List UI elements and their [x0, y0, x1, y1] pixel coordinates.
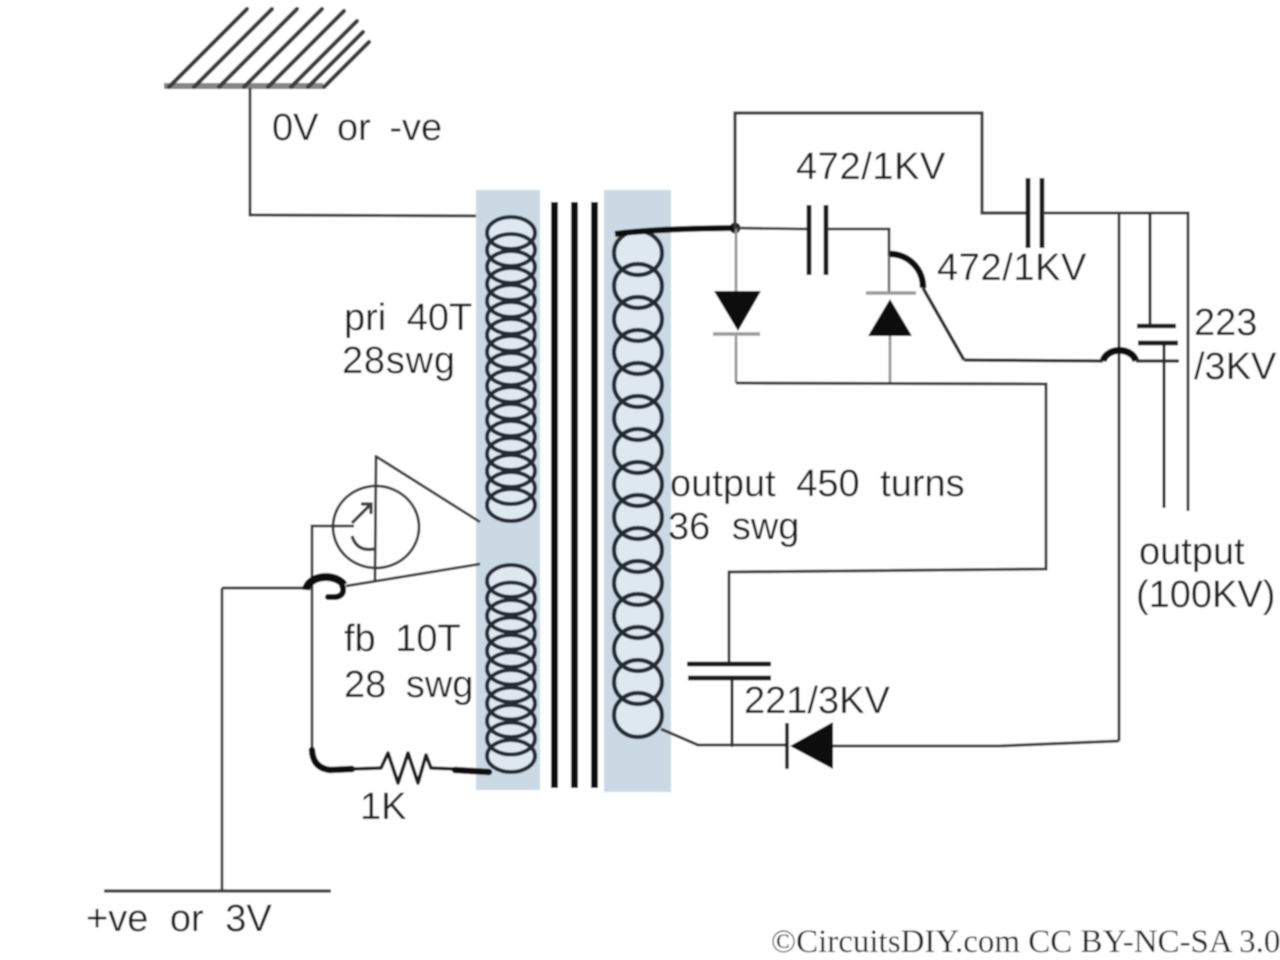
wire secondary top (thick)	[615, 228, 733, 234]
svg-text:36 swg: 36 swg	[668, 506, 799, 548]
wire resistor to fb winding bottom (thick)	[455, 770, 489, 772]
wire to C3 bottom with hop over output wire	[964, 360, 1103, 361]
svg-text:221/3KV: 221/3KV	[744, 680, 890, 722]
capacitor C2 472/1KV	[1028, 178, 1042, 248]
svg-text:223: 223	[1194, 302, 1257, 344]
wire C2 right to corner	[1043, 213, 1188, 511]
wire D3 to output vertical	[833, 741, 1119, 746]
bottom rail of multiplier loop	[729, 383, 1046, 662]
ground	[164, 9, 369, 87]
wire ground to primary top	[250, 88, 493, 216]
junction node at top	[730, 223, 741, 234]
secondary winding output 450 turns	[614, 231, 662, 737]
transistor body circle	[333, 486, 419, 568]
capacitor C4 221/3KV	[687, 664, 771, 747]
wire hop (emitter over base)	[306, 577, 344, 590]
svg-text:output: output	[1139, 531, 1245, 573]
svg-text:0V or -ve: 0V or -ve	[272, 107, 442, 149]
supply vertical wire	[221, 588, 224, 891]
svg-text:/3KV: /3KV	[1194, 346, 1277, 388]
svg-text:28 swg: 28 swg	[344, 664, 473, 706]
wire junction to C1	[735, 228, 807, 229]
svg-text:472/1KV: 472/1KV	[937, 247, 1087, 289]
wire hop (over output vertical)	[1103, 350, 1136, 361]
svg-text:1K: 1K	[360, 786, 406, 828]
capacitor C1 472/1KV	[809, 205, 826, 275]
transformer bobbin right	[604, 190, 671, 792]
transformer bobbin left	[476, 190, 540, 790]
capacitor C3 223/3KV	[1137, 214, 1178, 508]
svg-text:+ve or 3V: +ve or 3V	[86, 898, 272, 940]
svg-text:pri 40T: pri 40T	[344, 297, 472, 339]
diode D2	[866, 256, 916, 383]
wire emitter to fb winding top	[346, 564, 480, 586]
base corner hook (thick)	[312, 750, 352, 770]
svg-text:fb 10T: fb 10T	[344, 618, 461, 660]
wire C1 to node A	[827, 229, 889, 256]
diode D3	[787, 722, 833, 769]
wire diagonal node A to lower wire	[923, 288, 964, 360]
feedback winding fb 10T	[487, 565, 535, 772]
wire hop at node A (thick arc)	[890, 254, 923, 288]
+ve rail	[104, 889, 331, 892]
wire secondary bottom	[661, 729, 786, 745]
resistor R1 1K	[352, 753, 455, 783]
collector diagonal to primary	[377, 457, 480, 522]
emitter arrow squiggle	[352, 504, 371, 523]
primary winding pri 40T	[487, 217, 535, 521]
transistor Q1	[333, 455, 480, 581]
collector stem vertical	[375, 455, 376, 581]
wire output left vertical	[1118, 214, 1121, 741]
svg-text:output 450 turns: output 450 turns	[670, 463, 965, 505]
svg-text:472/1KV: 472/1KV	[796, 146, 946, 188]
transformer core	[551, 202, 598, 788]
emitter wire with hop over base wire	[222, 587, 304, 590]
svg-text:28swg: 28swg	[342, 340, 456, 382]
base wire into transistor	[312, 526, 354, 754]
top loop wire	[735, 113, 1027, 228]
svg-text:©CircuitsDIY.com CC BY-NC-SA 3: ©CircuitsDIY.com CC BY-NC-SA 3.0	[771, 924, 1280, 960]
diode D1	[713, 229, 761, 383]
svg-text:(100KV): (100KV)	[1136, 574, 1275, 616]
